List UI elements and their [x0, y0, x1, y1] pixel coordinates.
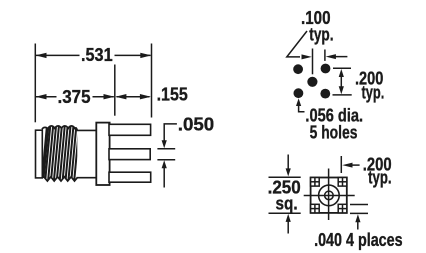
connector barrel — [77, 129, 97, 131]
dimension .200 tick (flange) — [340, 156, 342, 173]
dimension .100 arrow left — [331, 56, 347, 58]
dimension .040 tick top — [350, 204, 368, 206]
dimension .040 tick bottom — [350, 212, 368, 214]
center hole inner circle — [325, 191, 334, 200]
extension line right — [151, 44, 153, 118]
svg-text:.040 4 places: .040 4 places — [314, 229, 403, 250]
corner pad BL — [311, 204, 320, 213]
thread crest top scallops — [42, 126, 77, 131]
dimension .531 arrow left — [36, 53, 47, 58]
dimension .155 arrows — [117, 96, 150, 98]
dimension .050 tick top — [157, 148, 175, 150]
dimension .531 arrow right — [140, 53, 151, 58]
dimension .250 tick top — [269, 176, 301, 178]
dimension .100 arrow right — [302, 54, 312, 59]
dimension .040 arrow up — [355, 214, 360, 222]
flange centerline vertical — [328, 169, 330, 221]
dimension .100 leader diagonal — [287, 31, 307, 57]
flange square — [311, 178, 347, 213]
svg-text:.155: .155 — [157, 83, 188, 104]
svg-text:typ.: typ. — [368, 166, 392, 187]
corner pad TR — [338, 178, 347, 187]
dimension .056 leader arrow — [296, 98, 301, 106]
dimension .050 arrow up — [162, 160, 167, 168]
extension line middle — [114, 65, 116, 116]
svg-text:.375: .375 — [58, 86, 91, 107]
svg-text:.531: .531 — [81, 44, 113, 65]
dimension .050 leader elbow — [164, 124, 177, 141]
pin bottom — [109, 172, 151, 182]
hole TR — [321, 64, 331, 74]
dimension .375 line — [36, 96, 114, 98]
dimension .200 tick top (holes) — [333, 67, 351, 69]
svg-text:5 holes: 5 holes — [310, 122, 358, 143]
svg-text:typ.: typ. — [309, 23, 333, 44]
pin middle — [109, 149, 150, 160]
thread hatch stripes — [42, 123, 79, 183]
svg-text:.050: .050 — [178, 114, 214, 135]
thread crest bottom teeth — [42, 177, 77, 181]
pin top — [109, 124, 151, 135]
dimension .250 tick bottom — [269, 212, 301, 214]
svg-text:typ.: typ. — [362, 81, 385, 102]
hole center — [307, 77, 317, 87]
hole pattern: centerline center column — [312, 49, 314, 75]
corner pad TL — [311, 178, 320, 187]
dimension .050 tick bottom — [157, 159, 175, 161]
flange centerline horizontal — [304, 195, 355, 197]
dimension .250 arrow down — [287, 155, 289, 171]
dimension .531 line — [36, 54, 151, 56]
dimension .375 arrow left — [36, 94, 47, 99]
connector flange — [96, 123, 109, 185]
hole TL — [293, 64, 303, 74]
dimension .200 arrows (holes) — [340, 74, 342, 89]
center hole outer circle — [319, 185, 340, 206]
extension line left — [34, 44, 36, 123]
hole BL — [294, 88, 304, 98]
hole pattern: centerline right column — [324, 50, 326, 61]
dimension .250 arrow up — [287, 221, 289, 234]
dimension .375 arrow right — [104, 94, 115, 99]
corner pad BR — [338, 204, 347, 213]
dimension .200 arrow (flange) — [349, 164, 360, 166]
hole BR — [320, 89, 330, 99]
connector coupling nut face (left cap) — [36, 130, 43, 178]
svg-text:sq.: sq. — [276, 192, 298, 213]
dimension .050 arrow down — [162, 140, 167, 148]
dimension .200 tick bottom (holes) — [333, 94, 352, 96]
